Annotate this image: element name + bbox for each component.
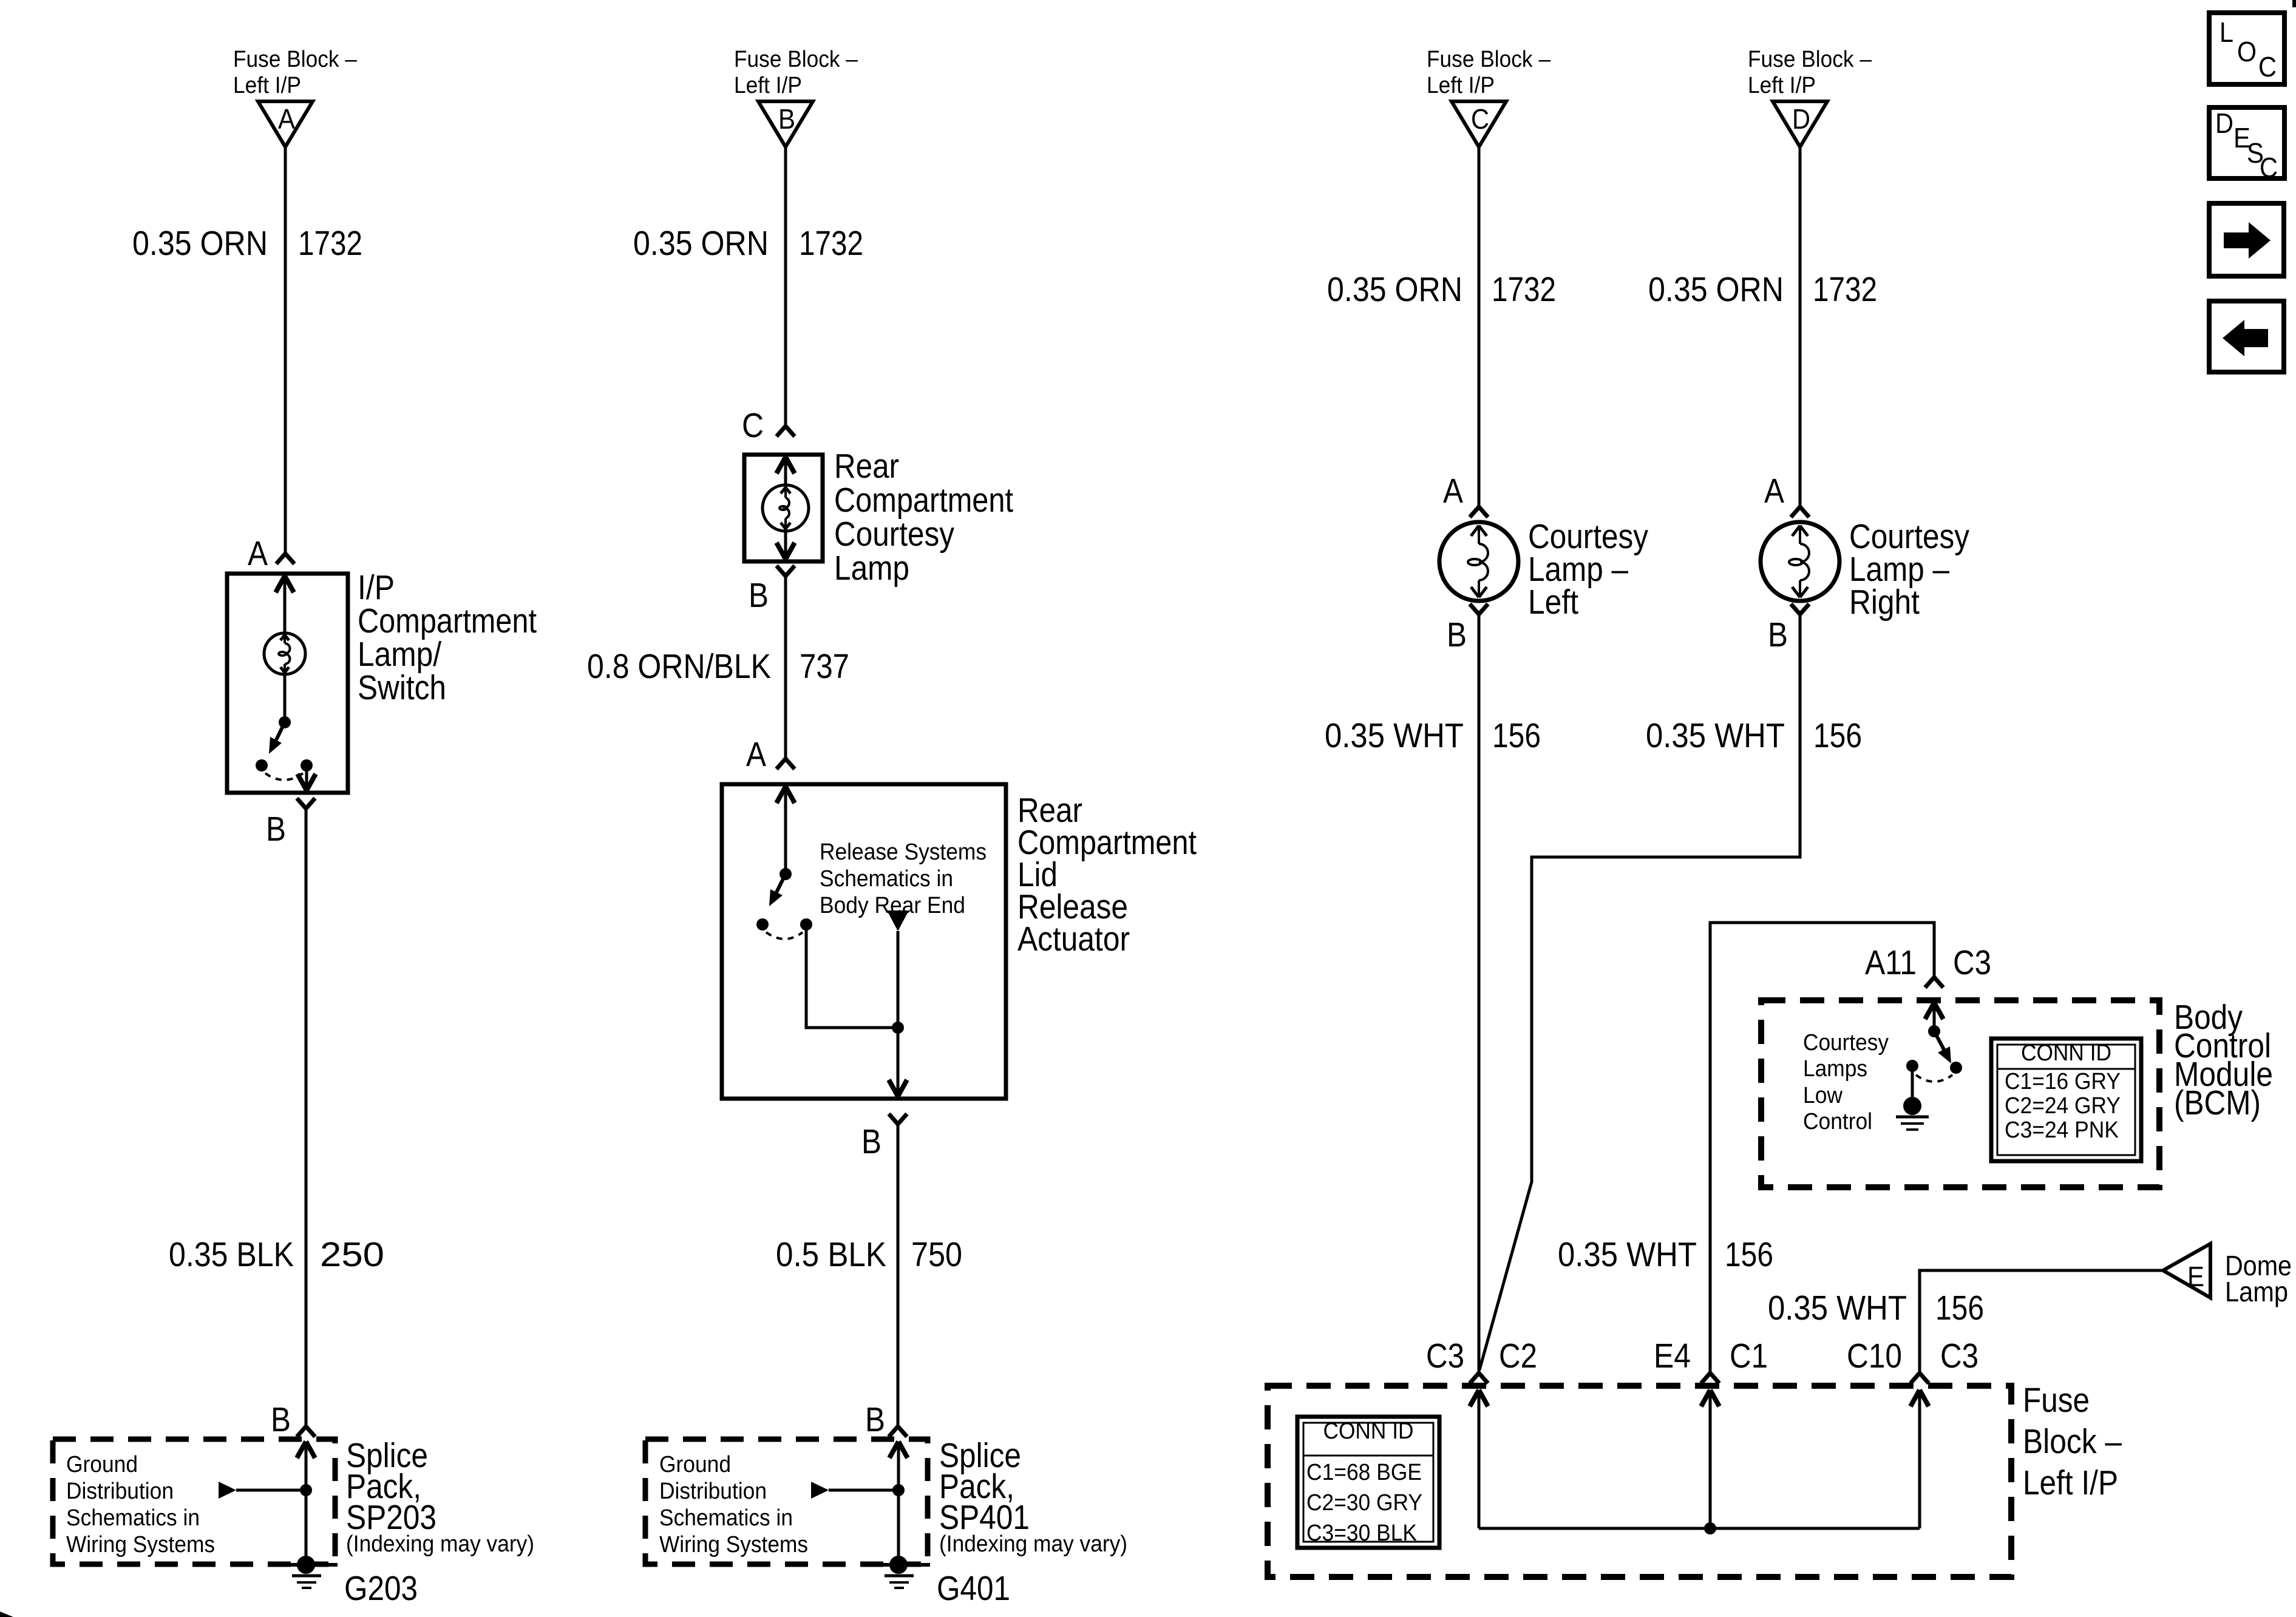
svg-text:G401: G401 [937, 1569, 1010, 1608]
wire label 0.8 ORN/BLK 737 [587, 647, 849, 686]
component name: Fuse Block - Left I/P [2023, 1381, 2122, 1502]
label: Fuse Block - Left I/P (ref C) [1427, 47, 1551, 98]
svg-text:Wiring Systems: Wiring Systems [66, 1532, 215, 1558]
wire: lamp left pin B down to fuse block C3/C2 [1470, 604, 1488, 1383]
node label B (splice end) [271, 1400, 291, 1439]
svg-text:Courtesy: Courtesy [1803, 1030, 1889, 1056]
wire: fuse C down to courtesy lamp left pin A [1470, 147, 1488, 517]
svg-text:Schematics in: Schematics in [659, 1505, 793, 1531]
svg-text:Actuator: Actuator [1017, 920, 1130, 958]
pin label B (lamp left) [1447, 615, 1467, 654]
wire label 0.35 ORN 1732 [1648, 270, 1877, 309]
svg-text:C: C [2258, 51, 2277, 83]
svg-text:C3: C3 [1426, 1337, 1464, 1375]
svg-text:Switch: Switch [358, 668, 446, 707]
component name: I/P Compartment Lamp/Switch [358, 568, 537, 707]
nav box previous arrow [2209, 301, 2284, 372]
svg-text:0.35 WHT: 0.35 WHT [1646, 716, 1785, 755]
pin label C [742, 406, 764, 445]
BCM pin A11 entry arrow [1925, 1003, 1943, 1031]
ground G203 symbol [282, 1556, 338, 1588]
svg-text:1732: 1732 [1492, 270, 1556, 309]
dome lamp reference triangle E [2163, 1244, 2210, 1298]
page edge mark top right [2292, 0, 2296, 7]
svg-text:Fuse Block –: Fuse Block – [1748, 47, 1872, 72]
svg-text:C3: C3 [1940, 1337, 1978, 1375]
svg-text:G203: G203 [344, 1569, 418, 1608]
pin B exit arrow [776, 543, 795, 559]
ground G401 symbol [874, 1556, 930, 1588]
svg-text:1732: 1732 [298, 224, 362, 263]
svg-text:B: B [271, 1400, 291, 1439]
fuse block reference triangle D [1773, 101, 1827, 147]
page edge mark bottom left [0, 1612, 13, 1617]
rear compartment courtesy lamp box [744, 455, 823, 561]
svg-text:0.35 WHT: 0.35 WHT [1325, 716, 1464, 755]
wire label 0.5 BLK 750 [776, 1235, 962, 1274]
label: Courtesy Lamps Low Control [1803, 1030, 1889, 1134]
svg-text:Fuse Block –: Fuse Block – [734, 47, 858, 72]
splice entry arrow (pin B) [889, 1442, 908, 1565]
fuse block reference triangle A [258, 101, 313, 147]
switch S3 (courtesy lamps low control driver) [1906, 1025, 1962, 1097]
svg-text:Block –: Block – [2023, 1422, 2122, 1461]
svg-text:Fuse Block –: Fuse Block – [1427, 47, 1551, 72]
svg-text:B: B [1447, 615, 1467, 654]
svg-text:Lamp: Lamp [834, 549, 909, 588]
svg-text:0.35 WHT: 0.35 WHT [1768, 1289, 1907, 1327]
internal wiring and release-system triangle [806, 910, 909, 1034]
pin labels E4 / C1 [1654, 1337, 1768, 1375]
svg-text:B: B [266, 810, 286, 849]
svg-text:C: C [742, 406, 764, 445]
wire: fuse A down to I/P lamp/switch pin A [276, 147, 294, 564]
svg-text:C: C [2260, 152, 2278, 183]
pin label B [266, 810, 286, 849]
label: Splice Pack, SP203 (Indexing may vary) [346, 1436, 534, 1557]
pin label A [746, 735, 766, 774]
wire label 0.35 WHT 156 [1558, 1235, 1773, 1274]
svg-text:156: 156 [1935, 1289, 1984, 1327]
node label B (splice end) [865, 1400, 885, 1439]
nav box LOC [2209, 13, 2284, 84]
svg-text:Left: Left [1528, 583, 1578, 622]
svg-text:CONN ID: CONN ID [2021, 1040, 2111, 1066]
svg-text:0.35 ORN: 0.35 ORN [132, 224, 268, 263]
svg-text:Body Rear End: Body Rear End [820, 893, 965, 918]
component name: Rear Compartment Courtesy Lamp [834, 447, 1013, 588]
BCM internal ground symbol [1896, 1097, 1929, 1130]
svg-text:CONN ID: CONN ID [1323, 1419, 1414, 1444]
svg-text:L: L [2220, 16, 2233, 48]
pin labels C3 / C2 [1426, 1337, 1537, 1375]
svg-text:Schematics in: Schematics in [66, 1505, 200, 1531]
splice branch arrow and junction [811, 1482, 905, 1499]
wire label 0.35 ORN 1732 [633, 224, 863, 263]
svg-text:Ground: Ground [659, 1452, 731, 1477]
wire label 0.35 ORN 1732 [1327, 270, 1556, 309]
wire label 0.35 ORN 1732 [132, 224, 362, 263]
svg-text:(BCM): (BCM) [2174, 1083, 2261, 1122]
svg-text:C2=30 GRY: C2=30 GRY [1306, 1490, 1422, 1516]
svg-text:0.35 ORN: 0.35 ORN [1648, 270, 1784, 309]
svg-text:Left I/P: Left I/P [2023, 1463, 2118, 1502]
svg-text:A: A [1443, 472, 1463, 510]
pin C entry arrow [776, 457, 795, 559]
courtesy lamp right symbol [1761, 522, 1839, 601]
svg-text:156: 156 [1725, 1235, 1773, 1274]
label: Fuse Block - Left I/P (ref A) [233, 47, 358, 98]
label Dome Lamp [2225, 1250, 2292, 1307]
pin label A [248, 534, 268, 573]
nav box next arrow [2209, 203, 2284, 276]
svg-text:Left I/P: Left I/P [1748, 73, 1816, 98]
svg-text:E: E [2187, 1261, 2204, 1292]
svg-text:Left I/P: Left I/P [1427, 73, 1495, 98]
lamp symbol (I/P compartment lamp) [264, 633, 305, 674]
svg-text:0.35 BLK: 0.35 BLK [169, 1235, 294, 1274]
pin label B [861, 1122, 881, 1161]
svg-text:C1=68 BGE: C1=68 BGE [1306, 1460, 1422, 1485]
svg-text:B: B [778, 103, 795, 135]
svg-text:(Indexing may vary): (Indexing may vary) [346, 1531, 534, 1557]
svg-text:C1=16 GRY: C1=16 GRY [2005, 1069, 2121, 1094]
svg-text:1732: 1732 [799, 224, 863, 263]
svg-text:A: A [746, 735, 766, 774]
pin B exit arrow [889, 1028, 907, 1096]
pin label A (lamp left) [1443, 472, 1463, 510]
svg-text:B: B [861, 1122, 881, 1161]
svg-text:0.35 ORN: 0.35 ORN [633, 224, 769, 263]
svg-text:250: 250 [320, 1235, 384, 1274]
wire label 0.35 WHT 156 [1325, 716, 1541, 755]
svg-text:B: B [865, 1400, 885, 1439]
svg-text:Rear: Rear [834, 447, 899, 486]
label: Splice Pack, SP401 (Indexing may vary) [939, 1436, 1127, 1557]
svg-text:Lamp: Lamp [2225, 1276, 2288, 1307]
note: Release Systems Schematics in Body Rear End [820, 839, 987, 918]
svg-text:O: O [2237, 36, 2257, 67]
wire: courtesy lamp B down to actuator pin A [776, 566, 795, 769]
svg-text:0.8 ORN/BLK: 0.8 ORN/BLK [587, 647, 771, 686]
svg-text:Control: Control [1803, 1109, 1872, 1134]
component name: Body Control Module (BCM) [2174, 998, 2273, 1122]
svg-text:C2: C2 [1499, 1337, 1537, 1375]
svg-text:0.35 ORN: 0.35 ORN [1327, 270, 1462, 309]
svg-text:D: D [1792, 103, 1810, 135]
wire: BCM A11 up-left-down to fuse block E4/C1 [1701, 923, 1943, 1383]
svg-text:Left I/P: Left I/P [233, 73, 301, 98]
wire: fuse B down to rear compartment courtesy lamp pin C [776, 147, 795, 436]
wire: dome lamp E left-down to fuse block C10/C3 [1911, 1270, 2163, 1383]
wire: actuator pin B down to splice SP401 [889, 1114, 907, 1437]
svg-text:737: 737 [800, 647, 849, 686]
svg-text:A: A [1764, 472, 1784, 510]
splice entry arrow (pin B) [297, 1442, 315, 1565]
pin label B [749, 576, 769, 615]
fuse block reference triangle B [758, 101, 813, 147]
switch S1 (lamp switch) [256, 716, 313, 780]
svg-text:Lamps: Lamps [1803, 1056, 1867, 1082]
note: Ground Distribution Schematics in Wiring Systems [66, 1452, 215, 1558]
label G203 [344, 1569, 418, 1608]
splice pack SP203 dashed box [53, 1439, 335, 1564]
svg-text:156: 156 [1492, 716, 1541, 755]
label: Fuse Block - Left I/P (ref B) [734, 47, 858, 98]
svg-text:Fuse: Fuse [2023, 1381, 2090, 1420]
splice branch arrow and junction [219, 1482, 312, 1499]
component name: Rear Compartment Lid Release Actuator [1017, 791, 1197, 958]
svg-text:Release Systems: Release Systems [820, 839, 987, 865]
pin A entry arrow [276, 576, 294, 722]
fuse block reference triangle C [1452, 101, 1506, 147]
svg-text:C10: C10 [1847, 1337, 1902, 1375]
svg-text:Distribution: Distribution [659, 1479, 767, 1504]
svg-text:Low: Low [1803, 1083, 1843, 1108]
rear compartment lid release actuator box [722, 784, 1006, 1099]
svg-text:Distribution: Distribution [66, 1479, 174, 1504]
svg-text:Compartment: Compartment [834, 481, 1013, 520]
pin labels C10 / C3 [1847, 1337, 1978, 1375]
fuse block entry arrows and internal bus [1470, 1390, 1929, 1534]
svg-text:1732: 1732 [1813, 270, 1877, 309]
svg-text:Fuse Block –: Fuse Block – [233, 47, 358, 72]
svg-text:A11: A11 [1865, 943, 1917, 982]
svg-text:D: D [2215, 107, 2233, 139]
svg-text:Schematics in: Schematics in [820, 866, 953, 892]
svg-text:Courtesy: Courtesy [834, 515, 954, 554]
component name: Courtesy Lamp - Right [1849, 517, 1969, 622]
label G401 [937, 1569, 1010, 1608]
svg-text:Ground: Ground [66, 1452, 138, 1477]
svg-text:0.5 BLK: 0.5 BLK [776, 1235, 886, 1274]
svg-text:156: 156 [1813, 716, 1862, 755]
fuse block CONN ID table [1297, 1417, 1439, 1548]
wire label 0.35 WHT 156 [1768, 1289, 1984, 1327]
svg-text:C2=24 GRY: C2=24 GRY [2005, 1093, 2121, 1119]
note: Ground Distribution Schematics in Wiring Systems [659, 1452, 808, 1558]
wire label 0.35 BLK 250 [169, 1235, 384, 1274]
BCM CONN ID table [1991, 1039, 2141, 1161]
wire: lamp/switch pin B down to splice SP203 [297, 798, 315, 1437]
switch S2 (actuator switch) [756, 868, 812, 939]
wire: lamp right pin B jog down to fuse block C3/C2 [1479, 604, 1809, 1370]
svg-text:B: B [1768, 615, 1788, 654]
courtesy lamp left symbol [1439, 522, 1518, 601]
wire: fuse D down to courtesy lamp right pin A [1791, 147, 1809, 517]
svg-text:E4: E4 [1654, 1337, 1691, 1375]
I/P Compartment Lamp/Switch box U1 [227, 574, 348, 793]
svg-text:(Indexing may vary): (Indexing may vary) [939, 1531, 1127, 1557]
pin label A11 / C3 [1865, 943, 1991, 982]
pin A entry arrow [776, 787, 795, 874]
svg-text:C3: C3 [1953, 943, 1991, 982]
nav box DESC [2209, 107, 2284, 183]
svg-text:A: A [248, 534, 268, 573]
svg-text:A: A [278, 103, 295, 135]
svg-text:Left I/P: Left I/P [734, 73, 802, 98]
svg-text:C3=24 PNK: C3=24 PNK [2005, 1117, 2119, 1143]
lamp symbol (rear compartment courtesy lamp) [763, 485, 809, 531]
svg-text:Right: Right [1849, 583, 1920, 622]
fuse block - left I/P dashed box [1268, 1386, 2011, 1577]
svg-text:Wiring Systems: Wiring Systems [659, 1532, 808, 1558]
svg-text:0.35 WHT: 0.35 WHT [1558, 1235, 1697, 1274]
svg-text:C: C [1471, 103, 1489, 135]
splice pack SP401 dashed box [645, 1439, 928, 1564]
svg-text:750: 750 [911, 1235, 962, 1274]
component name: Courtesy Lamp - Left [1528, 517, 1648, 622]
label: Fuse Block - Left I/P (ref D) [1748, 47, 1872, 98]
pin B exit arrow [297, 765, 316, 790]
svg-text:C1: C1 [1730, 1337, 1768, 1375]
svg-text:B: B [749, 576, 769, 615]
pin label B (lamp right) [1768, 615, 1788, 654]
body control module (BCM) dashed box [1761, 1000, 2159, 1187]
svg-text:C3=30 BLK: C3=30 BLK [1306, 1520, 1417, 1546]
pin label A (lamp right) [1764, 472, 1784, 510]
wire label 0.35 WHT 156 [1646, 716, 1862, 755]
